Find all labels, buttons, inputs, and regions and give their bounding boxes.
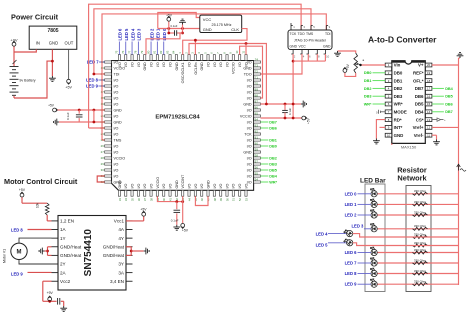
svg-text:TMS: TMS: [114, 139, 122, 143]
svg-text:I/O: I/O: [114, 79, 119, 83]
svg-text:19: 19: [427, 71, 431, 75]
svg-text:GND/Heat: GND/Heat: [60, 244, 82, 249]
svg-text:53: 53: [244, 198, 248, 202]
svg-text:58: 58: [255, 153, 259, 157]
svg-text:LED 9: LED 9: [345, 282, 358, 287]
svg-text:GND/Heat: GND/Heat: [60, 253, 82, 258]
svg-text:I/O: I/O: [168, 183, 172, 188]
svg-text:OUT: OUT: [65, 40, 74, 45]
svg-text:56: 56: [255, 165, 259, 169]
svg-text:38: 38: [149, 198, 153, 202]
svg-text:JTAG 10-Pin Header: JTAG 10-Pin Header: [294, 39, 327, 43]
svg-text:36: 36: [137, 198, 141, 202]
svg-text:1A: 1A: [60, 227, 67, 232]
svg-text:I/O: I/O: [114, 97, 119, 101]
svg-text:I/O: I/O: [124, 183, 128, 188]
svg-text:GND: GND: [114, 109, 123, 113]
svg-text:14: 14: [427, 110, 431, 114]
svg-text:LED 8: LED 8: [86, 78, 99, 83]
svg-text:80: 80: [146, 50, 150, 54]
svg-text:I/O: I/O: [225, 62, 229, 67]
svg-text:GND: GND: [290, 44, 298, 48]
svg-text:75: 75: [115, 50, 119, 54]
svg-text:+5V: +5V: [65, 86, 72, 90]
svg-text:I/O: I/O: [168, 62, 172, 67]
svg-text:65: 65: [255, 111, 259, 115]
svg-text:DB7: DB7: [445, 110, 453, 114]
svg-text:VCC: VCC: [203, 17, 212, 22]
svg-text:73: 73: [255, 63, 259, 67]
svg-text:9v Battery: 9v Battery: [19, 79, 35, 83]
svg-text:DB1: DB1: [364, 79, 372, 83]
svg-text:46: 46: [200, 198, 204, 202]
svg-text:I/O: I/O: [149, 62, 153, 67]
svg-text:WR*: WR*: [394, 102, 403, 107]
svg-text:I/O: I/O: [114, 163, 119, 167]
svg-text:68: 68: [255, 93, 259, 97]
svg-text:GND/Heat: GND/Heat: [103, 253, 125, 258]
svg-text:I/O: I/O: [238, 62, 242, 67]
svg-text:+9V: +9V: [47, 291, 54, 295]
svg-text:I/O: I/O: [130, 183, 134, 188]
svg-text:1Y: 1Y: [60, 236, 66, 241]
svg-text:3Y: 3Y: [118, 262, 124, 267]
svg-text:11: 11: [241, 50, 245, 53]
svg-text:REF*: REF*: [413, 71, 424, 76]
svg-text:15: 15: [427, 102, 431, 106]
svg-text:0.1uF: 0.1uF: [171, 24, 178, 28]
svg-text:I/O: I/O: [219, 183, 223, 188]
svg-text:29: 29: [101, 162, 105, 166]
svg-text:I/O: I/O: [213, 183, 217, 188]
svg-text:VCCIO: VCCIO: [232, 62, 236, 74]
svg-text:DB5: DB5: [269, 168, 277, 172]
svg-text:+5V: +5V: [48, 104, 55, 108]
svg-text:GND: GND: [175, 62, 179, 71]
svg-text:33: 33: [118, 198, 122, 202]
svg-text:LED Bar: LED Bar: [360, 177, 386, 184]
svg-text:Vin: Vin: [394, 63, 401, 68]
svg-text:I/O: I/O: [247, 175, 252, 179]
svg-text:I/O: I/O: [114, 151, 119, 155]
svg-text:LED 3: LED 3: [352, 223, 365, 228]
svg-text:I/O: I/O: [149, 183, 153, 188]
svg-text:4Y: 4Y: [118, 236, 124, 241]
svg-text:18: 18: [427, 79, 431, 83]
svg-text:DB7: DB7: [269, 120, 277, 124]
svg-text:48: 48: [213, 198, 217, 202]
svg-text:72: 72: [255, 69, 259, 73]
svg-text:I/O: I/O: [225, 183, 229, 188]
svg-text:4A: 4A: [118, 227, 125, 232]
svg-text:DB4: DB4: [269, 174, 277, 178]
svg-text:35: 35: [130, 198, 134, 202]
svg-text:10: 10: [326, 55, 330, 59]
svg-text:70: 70: [255, 81, 259, 85]
svg-text:2A: 2A: [60, 270, 67, 275]
svg-text:I/O: I/O: [247, 85, 252, 89]
svg-text:DB5: DB5: [445, 95, 453, 99]
svg-text:71: 71: [255, 75, 259, 79]
svg-text:66: 66: [255, 105, 259, 109]
svg-text:GND: GND: [394, 133, 404, 138]
svg-text:DB6: DB6: [415, 94, 424, 99]
svg-text:I/O: I/O: [114, 115, 119, 119]
svg-text:A-to-D Converter: A-to-D Converter: [368, 35, 437, 45]
svg-text:I/O: I/O: [114, 127, 119, 131]
svg-text:12: 12: [427, 126, 431, 130]
svg-text:79: 79: [140, 50, 144, 54]
svg-text:GND: GND: [323, 44, 331, 48]
svg-text:I/O: I/O: [232, 183, 236, 188]
svg-text:DB0: DB0: [364, 71, 372, 75]
svg-text:VCC: VCC: [299, 44, 307, 48]
svg-text:TCK: TCK: [244, 133, 252, 137]
svg-text:LED 6: LED 6: [118, 28, 123, 41]
svg-text:DB3: DB3: [394, 94, 403, 99]
svg-text:SN754410: SN754410: [83, 229, 94, 277]
svg-text:61: 61: [255, 135, 259, 139]
svg-text:DB7: DB7: [415, 86, 424, 91]
svg-text:OFL*: OFL*: [413, 78, 424, 83]
svg-text:1,2 EN: 1,2 EN: [60, 219, 74, 224]
svg-text:81: 81: [153, 50, 157, 54]
svg-text:69: 69: [255, 87, 259, 91]
svg-text:WR*: WR*: [364, 102, 372, 106]
svg-text:GND: GND: [206, 180, 210, 189]
svg-text:I/O: I/O: [247, 97, 252, 101]
svg-text:VCCIO: VCCIO: [114, 157, 126, 161]
svg-text:44: 44: [187, 198, 191, 202]
svg-text:V+: V+: [418, 63, 424, 68]
svg-text:GCLRn: GCLRn: [194, 62, 198, 74]
svg-text:IN: IN: [36, 40, 40, 45]
svg-text:28: 28: [101, 156, 105, 160]
svg-text:GND: GND: [143, 62, 147, 71]
svg-text:77: 77: [127, 50, 131, 54]
svg-text:LED 8: LED 8: [345, 271, 358, 276]
svg-text:10: 10: [235, 50, 239, 54]
svg-text:LED 9: LED 9: [86, 84, 99, 89]
svg-text:54: 54: [255, 177, 259, 181]
svg-text:DB2: DB2: [364, 87, 372, 91]
svg-text:I/O: I/O: [114, 169, 119, 173]
svg-text:Power Circuit: Power Circuit: [11, 12, 59, 21]
svg-text:I/O: I/O: [137, 62, 141, 67]
svg-text:10: 10: [387, 133, 391, 137]
svg-text:I/O: I/O: [143, 183, 147, 188]
svg-text:57: 57: [255, 159, 259, 163]
svg-text:I/O: I/O: [114, 175, 119, 179]
svg-text:LED 9: LED 9: [11, 271, 24, 276]
svg-text:LED 5: LED 5: [124, 28, 129, 41]
svg-text:I/O: I/O: [244, 183, 248, 188]
svg-text:I/O: I/O: [238, 183, 242, 188]
svg-text:EPM7192SLC84: EPM7192SLC84: [155, 114, 200, 120]
svg-text:I/O: I/O: [118, 62, 122, 67]
svg-text:I/O: I/O: [114, 145, 119, 149]
svg-text:Vref-: Vref-: [414, 133, 424, 138]
svg-text:64: 64: [255, 117, 259, 121]
svg-text:50: 50: [225, 198, 229, 202]
svg-text:60: 60: [255, 141, 259, 145]
svg-text:DB1: DB1: [394, 78, 403, 83]
svg-text:VCCINT: VCCINT: [181, 174, 185, 188]
svg-text:63: 63: [255, 123, 259, 127]
svg-text:LED 0: LED 0: [345, 191, 358, 196]
svg-text:34: 34: [124, 198, 128, 202]
svg-text:Vref+: Vref+: [413, 125, 424, 130]
svg-text:M: M: [17, 250, 22, 256]
svg-text:37: 37: [143, 198, 147, 202]
svg-text:LED 5: LED 5: [316, 243, 329, 248]
svg-text:DB3: DB3: [364, 95, 372, 99]
svg-text:DB1: DB1: [269, 138, 277, 142]
svg-text:GND: GND: [200, 62, 204, 71]
svg-text:I/O: I/O: [247, 169, 252, 173]
svg-text:26: 26: [101, 144, 105, 148]
svg-text:Motor #1: Motor #1: [3, 249, 7, 263]
svg-text:I/O: I/O: [247, 121, 252, 125]
svg-text:I/O: I/O: [137, 183, 141, 188]
svg-text:MAX150: MAX150: [401, 145, 417, 150]
svg-text:GND: GND: [243, 103, 252, 107]
svg-text:74: 74: [255, 57, 259, 61]
svg-text:VCCIO: VCCIO: [156, 177, 160, 189]
svg-text:+5V: +5V: [19, 188, 26, 192]
svg-text:I/O: I/O: [247, 109, 252, 113]
svg-text:+5V: +5V: [182, 229, 189, 233]
svg-text:CLK: CLK: [231, 27, 239, 32]
svg-text:GND: GND: [175, 180, 179, 189]
svg-text:I/O: I/O: [114, 103, 119, 107]
svg-text:I/O: I/O: [124, 62, 128, 67]
svg-text:LED 4: LED 4: [316, 231, 329, 236]
svg-text:LED 4: LED 4: [130, 28, 135, 41]
svg-text:13: 13: [427, 118, 431, 122]
svg-text:Vcc1: Vcc1: [114, 219, 125, 224]
svg-text:GND: GND: [49, 40, 58, 45]
svg-text:TCK: TCK: [290, 32, 298, 36]
svg-text:52: 52: [238, 198, 242, 202]
svg-text:I/O: I/O: [247, 163, 252, 167]
svg-text:11: 11: [427, 133, 430, 137]
svg-text:30: 30: [101, 168, 105, 172]
svg-text:DB4: DB4: [445, 87, 453, 91]
svg-text:VCCIO: VCCIO: [240, 115, 252, 119]
svg-text:3A: 3A: [118, 270, 125, 275]
svg-text:DB0: DB0: [269, 144, 277, 148]
svg-text:67: 67: [255, 99, 259, 103]
svg-text:LED 6: LED 6: [345, 250, 358, 255]
svg-text:2Y: 2Y: [60, 262, 66, 267]
svg-text:GND: GND: [203, 27, 212, 32]
svg-text:I/O: I/O: [194, 183, 198, 188]
svg-text:+: +: [444, 118, 446, 122]
svg-text:83: 83: [165, 50, 169, 54]
svg-text:I/O: I/O: [114, 85, 119, 89]
svg-text:Network: Network: [397, 173, 427, 182]
svg-text:GND/Heat: GND/Heat: [103, 244, 125, 249]
svg-text:I/O: I/O: [247, 79, 252, 83]
svg-text:WR*: WR*: [269, 180, 277, 184]
svg-text:I/O: I/O: [244, 62, 248, 67]
svg-text:GND: GND: [114, 121, 123, 125]
svg-text:+5V: +5V: [346, 63, 350, 70]
svg-text:TDI: TDI: [114, 73, 120, 77]
svg-text:49: 49: [219, 198, 223, 202]
svg-text:I/O: I/O: [247, 127, 252, 131]
svg-text:27: 27: [101, 150, 105, 154]
svg-text:0.1uF: 0.1uF: [171, 218, 179, 222]
svg-text:DB6: DB6: [269, 126, 277, 130]
svg-text:I/O: I/O: [247, 91, 252, 95]
svg-text:76: 76: [121, 50, 125, 54]
svg-text:I/O: I/O: [114, 133, 119, 137]
svg-text:0.1uF: 0.1uF: [288, 108, 292, 115]
svg-text:RD*: RD*: [394, 117, 402, 122]
svg-text:CS*: CS*: [416, 117, 424, 122]
svg-text:INT*: INT*: [394, 125, 403, 130]
svg-text:I/O: I/O: [162, 62, 166, 67]
svg-text:3,4 EN: 3,4 EN: [110, 279, 124, 284]
svg-text:I/O: I/O: [114, 91, 119, 95]
svg-text:LED 7: LED 7: [345, 261, 358, 266]
svg-text:TDO: TDO: [298, 32, 306, 36]
svg-text:DB5: DB5: [415, 102, 424, 107]
svg-text:I/O: I/O: [187, 183, 191, 188]
svg-text:17: 17: [427, 87, 431, 91]
svg-text:16: 16: [427, 94, 431, 98]
svg-text:MODE: MODE: [394, 110, 407, 115]
svg-text:I/O: I/O: [247, 157, 252, 161]
svg-text:I/O: I/O: [200, 183, 204, 188]
svg-text:78: 78: [134, 50, 138, 54]
svg-text:I/O: I/O: [162, 183, 166, 188]
svg-text:DB2: DB2: [269, 156, 277, 160]
svg-text:10k: 10k: [36, 202, 40, 208]
svg-text:TDI: TDI: [325, 32, 331, 36]
svg-text:I/O: I/O: [247, 145, 252, 149]
svg-text:I/O: I/O: [130, 62, 134, 67]
svg-text:59: 59: [255, 147, 259, 151]
svg-text:I/O: I/O: [206, 62, 210, 67]
svg-text:LED 3: LED 3: [137, 28, 142, 41]
svg-text:+5V: +5V: [307, 117, 311, 124]
svg-text:41: 41: [168, 198, 172, 202]
svg-text:84: 84: [172, 50, 176, 54]
svg-text:62: 62: [255, 129, 259, 133]
svg-text:DB3: DB3: [269, 162, 277, 166]
svg-text:Motor Control Circuit: Motor Control Circuit: [4, 177, 78, 186]
svg-text:20: 20: [427, 63, 431, 67]
svg-text:GND: GND: [118, 180, 122, 189]
svg-text:LED 1: LED 1: [345, 202, 358, 207]
svg-text:Vcc2: Vcc2: [60, 279, 71, 284]
svg-text:7805: 7805: [47, 28, 58, 34]
svg-text:GND: GND: [243, 151, 252, 155]
svg-text:OSC/GCLK1: OSC/GCLK1: [181, 62, 185, 83]
svg-text:DB0: DB0: [394, 71, 403, 76]
svg-text:LED 8: LED 8: [11, 228, 24, 233]
svg-text:25.175 MHz: 25.175 MHz: [212, 23, 232, 27]
svg-text:DB2: DB2: [394, 86, 403, 91]
svg-text:55: 55: [255, 171, 259, 175]
svg-text:I/O: I/O: [247, 139, 252, 143]
svg-text:I/O: I/O: [213, 62, 217, 67]
svg-text:LED 2: LED 2: [345, 213, 358, 218]
svg-text:I/O: I/O: [187, 62, 191, 67]
svg-text:I/O: I/O: [156, 62, 160, 67]
svg-text:82: 82: [159, 50, 163, 54]
svg-text:TMS: TMS: [306, 32, 314, 36]
svg-text:DB4: DB4: [415, 110, 424, 115]
svg-text:51: 51: [232, 198, 236, 202]
svg-text:40: 40: [162, 198, 166, 202]
svg-text:0.1uF: 0.1uF: [66, 112, 70, 120]
svg-text:I/O: I/O: [219, 62, 223, 67]
svg-text:+5V: +5V: [140, 208, 147, 212]
svg-text:TDO: TDO: [244, 73, 252, 77]
svg-text:DB6: DB6: [445, 102, 453, 106]
